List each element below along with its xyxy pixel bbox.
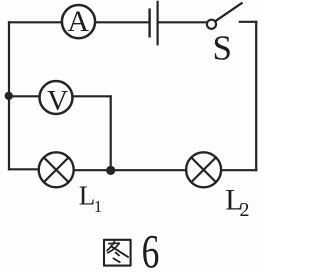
- svg-text:S: S: [213, 29, 232, 68]
- ammeter U-A circle: [62, 5, 95, 38]
- caption numeral 6: [142, 226, 160, 272]
- svg-text:1: 1: [94, 197, 103, 216]
- node: junction dot on left wire (voltmeter tap): [5, 92, 13, 100]
- svg-text:L: L: [79, 181, 96, 211]
- battery BT1: short negative plate: [148, 10, 150, 37]
- svg-text:2: 2: [240, 199, 250, 221]
- lamp L1: circle with inscribed X: [39, 152, 74, 187]
- svg-text:A: A: [67, 5, 89, 38]
- node: junction dot between L1 and L2: [106, 166, 115, 175]
- wire: voltmeter branch vertical down to junction: [110, 96, 112, 170]
- wire: top run from corner to ammeter: [9, 21, 62, 23]
- wire: right vertical conductor: [255, 22, 257, 170]
- wire: voltmeter branch left segment from tap: [9, 95, 40, 97]
- wire: left vertical conductor: [8, 22, 10, 169]
- wire: lamp L2 to junction node: [111, 169, 186, 171]
- wire: junction node to lamp L1: [74, 169, 111, 171]
- wire: ammeter to battery: [95, 21, 148, 23]
- wire: switch fixed contact stub to top-right corner: [240, 21, 256, 23]
- caption character 图: [104, 240, 131, 266]
- switch S: open lever arm: [215, 3, 241, 21]
- wire: lamp L1 to bottom-left corner: [9, 168, 39, 170]
- wire: voltmeter to right corner of branch: [73, 95, 111, 97]
- lamp L2: circle with inscribed X: [186, 152, 221, 187]
- svg-text:V: V: [47, 85, 68, 117]
- voltmeter U-V circle: [40, 81, 73, 114]
- wire: battery to switch: [159, 21, 206, 23]
- svg-text:6: 6: [142, 226, 160, 272]
- battery BT1: long positive plate: [157, 2, 159, 45]
- wire: bottom run from right corner to lamp L2: [221, 169, 256, 171]
- switch S: pivot circle: [207, 20, 216, 29]
